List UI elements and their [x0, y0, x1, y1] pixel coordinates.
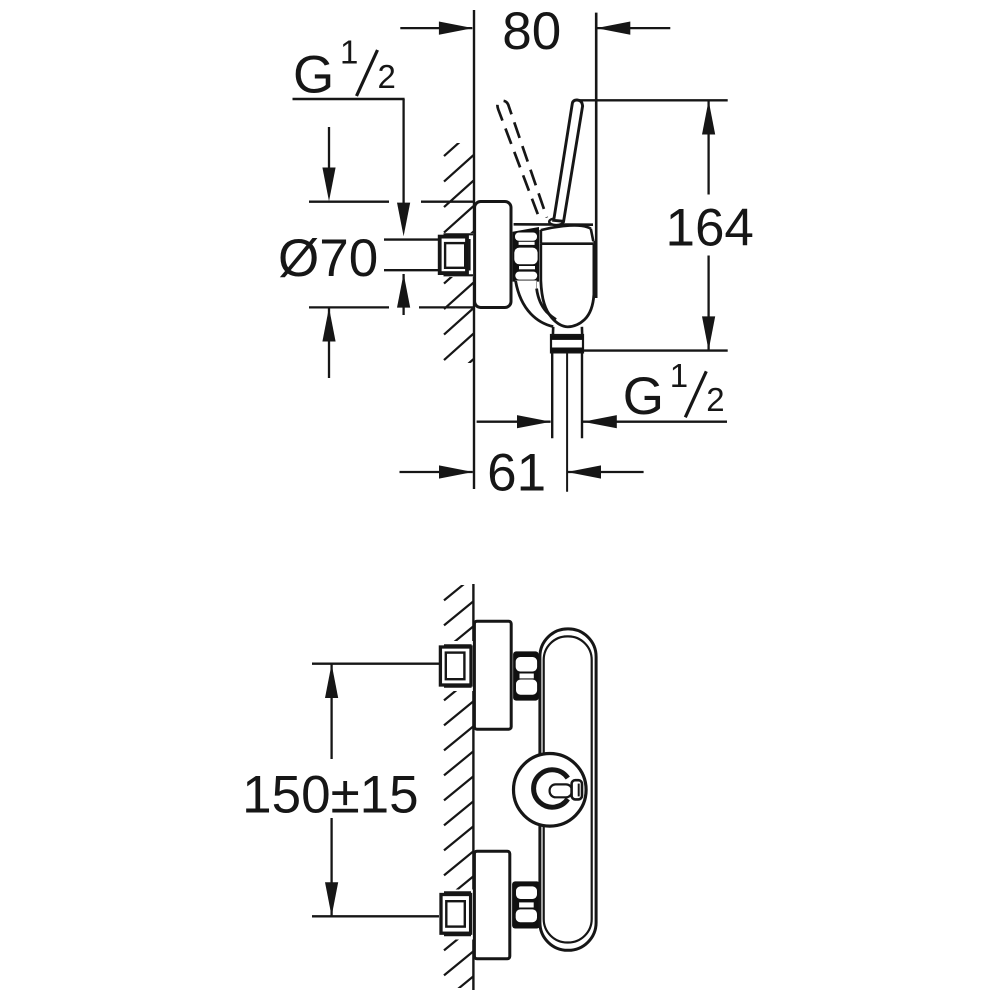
dimension 150+-15 line + arrows [330, 664, 332, 759]
in-wall union square inner [445, 243, 465, 268]
witness line upper inlet [312, 663, 440, 665]
lever handle (solid) [554, 100, 583, 221]
union nut (side view) [513, 227, 539, 282]
white backing for in-wall union [439, 233, 474, 277]
body cap [541, 225, 594, 243]
upper in-wall union [439, 641, 473, 691]
dimension 164 witness bottom [584, 349, 728, 351]
svg-text:2: 2 [378, 58, 396, 95]
wall surface line (front view) [472, 584, 474, 990]
svg-text:Ø70: Ø70 [278, 229, 378, 288]
leader arrow down to pipe [402, 99, 404, 203]
wall surface line (top view) [473, 10, 475, 489]
dimension 164 witness top [579, 99, 728, 101]
lever pivot base [549, 218, 563, 225]
mixer body fill (side view) [541, 228, 594, 327]
lower in-wall union [439, 890, 473, 940]
sleeve outer curve [516, 281, 554, 327]
underline + left arrow of bottom G1/2 [582, 421, 727, 423]
arrow up to pipe bottom [402, 274, 404, 315]
svg-text:80: 80 [502, 2, 561, 61]
dimension 61: right arrow [567, 471, 643, 473]
svg-text:1: 1 [670, 357, 688, 394]
escutcheon plate (side view) [475, 202, 511, 308]
leader underline G1/2 top [293, 98, 405, 100]
right-pointing arrow at hose left edge [477, 421, 551, 423]
dimension 61: left arrow [400, 471, 473, 473]
knob lever tab [572, 780, 582, 799]
svg-text:G: G [293, 46, 334, 105]
top face back line [514, 223, 593, 226]
mixer body outline [541, 241, 594, 327]
dimension 80: right arrow [597, 27, 671, 29]
upper union nut (front) [513, 651, 539, 700]
outlet stub [555, 328, 581, 336]
lower escutcheon plate (front) [474, 851, 509, 959]
hose outline [551, 352, 553, 438]
dimension arrow up (escutcheon bottom) [328, 308, 330, 378]
svg-text:2: 2 [706, 381, 724, 418]
dimension 164 line + arrows [707, 101, 709, 195]
witness line bottom of escutcheon [309, 306, 389, 308]
capsule inner outline [544, 636, 592, 942]
lower union nut (front) [512, 881, 540, 928]
witness line right (body front) [595, 13, 598, 298]
svg-text:G: G [623, 367, 664, 426]
dimension arrow down (escutcheon top) [328, 127, 330, 170]
svg-text:150±15: 150±15 [242, 765, 418, 824]
svg-text:61: 61 [487, 443, 546, 502]
witness line lower inlet [312, 915, 441, 917]
hose collar [551, 335, 583, 352]
knob outer circle [514, 754, 587, 827]
knob ring (open right) [534, 770, 568, 807]
lever handle (dashed alternate position) [497, 101, 547, 222]
hose sleeve root [516, 280, 537, 289]
supply pipe outline [384, 238, 441, 240]
hose centre line [566, 354, 568, 492]
in-wall union square outer [440, 237, 467, 274]
mixer body capsule (front) [540, 629, 596, 950]
knob lever bar [550, 784, 572, 797]
upper escutcheon plate (front) [474, 621, 511, 729]
hose sleeve fill [516, 281, 561, 328]
dimension 80: left arrow [400, 27, 472, 29]
union flange lines [444, 233, 474, 235]
svg-text:164: 164 [665, 198, 753, 257]
svg-text:1: 1 [340, 34, 358, 71]
sleeve inner curve [537, 289, 556, 320]
witness line top of escutcheon [309, 201, 389, 203]
